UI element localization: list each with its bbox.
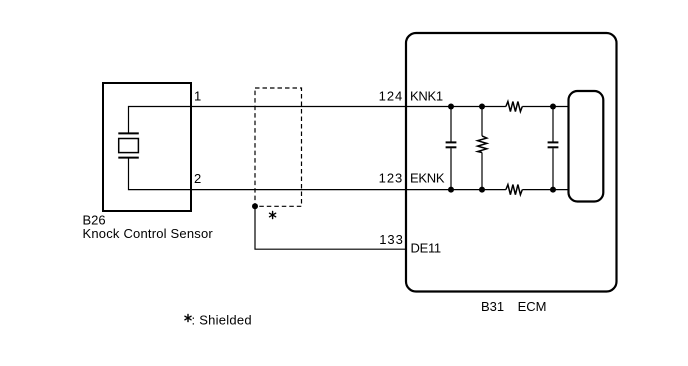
wire KNK1 (right of resistor to filter block) bbox=[522, 106, 568, 108]
capacitor C2 bbox=[548, 107, 559, 190]
ECM box B31 bbox=[406, 33, 617, 292]
svg-text:133: 133 bbox=[379, 232, 404, 247]
capacitor C1 bbox=[446, 107, 457, 190]
resistor R2 (horizontal, KNK1 line) bbox=[506, 102, 522, 112]
svg-text:: Shielded: : Shielded bbox=[192, 313, 252, 328]
svg-text:Knock Control Sensor: Knock Control Sensor bbox=[83, 226, 214, 241]
shield junction node bbox=[252, 203, 258, 209]
svg-text:124: 124 bbox=[379, 88, 404, 103]
svg-text:B31: B31 bbox=[481, 299, 504, 314]
svg-text:EKNK: EKNK bbox=[410, 170, 445, 185]
svg-text:DE11: DE11 bbox=[411, 241, 441, 256]
shield (dashed) bbox=[255, 88, 302, 206]
connector B26 outline bbox=[103, 83, 191, 211]
node: KNK1 / R1 junction bbox=[479, 104, 485, 110]
resistor R3 (horizontal, EKNK line) bbox=[506, 185, 522, 195]
filter block (internal IC) bbox=[569, 91, 604, 202]
resistor R1 (vertical) bbox=[478, 107, 487, 190]
wire EKNK (right of resistor to filter block) bbox=[522, 189, 568, 191]
svg-text:KNK1: KNK1 bbox=[410, 88, 443, 103]
wire shield to DE11 bbox=[255, 206, 406, 249]
note: Shielded bbox=[185, 314, 191, 321]
knock sensor element (piezo) bbox=[118, 133, 139, 157]
svg-text:ECM: ECM bbox=[518, 299, 547, 314]
svg-text:123: 123 bbox=[379, 170, 404, 185]
node: EKNK / C1 junction bbox=[448, 187, 454, 193]
svg-text:1: 1 bbox=[194, 88, 201, 103]
wire EKNK (sensor pin 2 to ECM, left of resistor) bbox=[129, 158, 506, 190]
node: EKNK / C2 junction bbox=[550, 187, 556, 193]
wire KNK1 (sensor pin 1 to ECM, left of resistor) bbox=[129, 107, 506, 134]
shield label * bbox=[270, 211, 276, 218]
node: EKNK / R1 junction bbox=[479, 187, 485, 193]
svg-text:2: 2 bbox=[194, 171, 201, 186]
node: KNK1 / C2 junction bbox=[550, 104, 556, 110]
node: KNK1 / C1 junction bbox=[448, 104, 454, 110]
